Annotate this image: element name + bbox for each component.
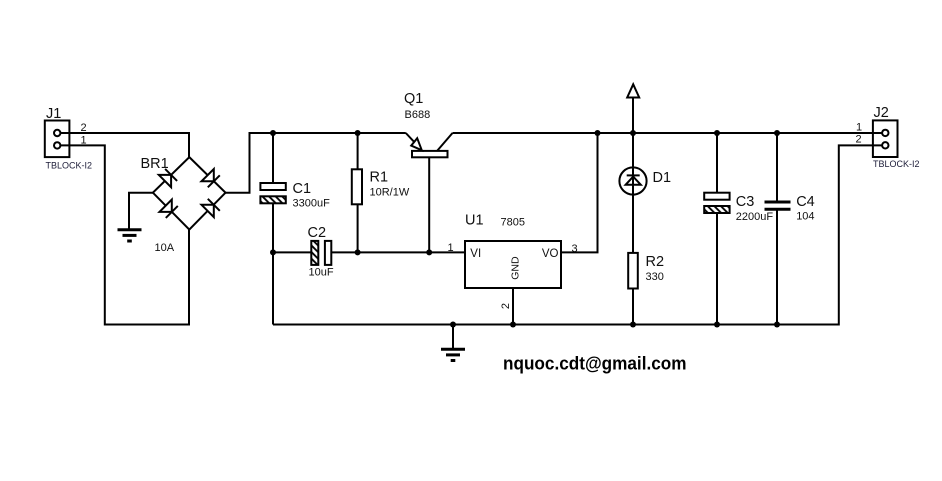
svg-text:nquoc.cdt@gmail.com: nquoc.cdt@gmail.com <box>503 353 687 374</box>
svg-text:104: 104 <box>796 210 814 222</box>
svg-text:J1: J1 <box>46 106 61 122</box>
svg-text:C2: C2 <box>308 225 327 241</box>
svg-text:2: 2 <box>500 303 512 309</box>
svg-text:R2: R2 <box>646 254 665 270</box>
svg-text:GND: GND <box>509 256 521 280</box>
svg-text:1: 1 <box>856 121 862 133</box>
svg-text:R1: R1 <box>370 170 389 186</box>
svg-text:TBLOCK-I2: TBLOCK-I2 <box>873 159 920 169</box>
svg-text:3300uF: 3300uF <box>293 197 331 209</box>
svg-text:2: 2 <box>856 133 862 145</box>
svg-text:330: 330 <box>646 271 664 283</box>
svg-text:3: 3 <box>572 243 578 255</box>
svg-text:Q1: Q1 <box>404 91 423 107</box>
svg-text:VO: VO <box>542 248 559 260</box>
svg-text:C3: C3 <box>736 194 755 210</box>
svg-text:10A: 10A <box>155 242 175 254</box>
svg-text:10R/1W: 10R/1W <box>370 187 410 199</box>
svg-text:1: 1 <box>448 242 454 254</box>
svg-text:10uF: 10uF <box>309 266 334 278</box>
svg-text:C1: C1 <box>293 181 312 197</box>
svg-text:2200uF: 2200uF <box>736 211 774 223</box>
svg-text:1: 1 <box>81 135 87 147</box>
svg-text:VI: VI <box>470 248 481 260</box>
svg-text:C4: C4 <box>796 194 815 210</box>
svg-text:TBLOCK-I2: TBLOCK-I2 <box>46 161 93 171</box>
svg-text:D1: D1 <box>653 170 672 186</box>
svg-text:BR1: BR1 <box>141 156 169 172</box>
svg-text:7805: 7805 <box>501 217 525 229</box>
svg-text:J2: J2 <box>874 105 889 121</box>
svg-text:2: 2 <box>81 122 87 134</box>
svg-text:U1: U1 <box>465 213 484 229</box>
svg-text:B688: B688 <box>405 109 431 121</box>
